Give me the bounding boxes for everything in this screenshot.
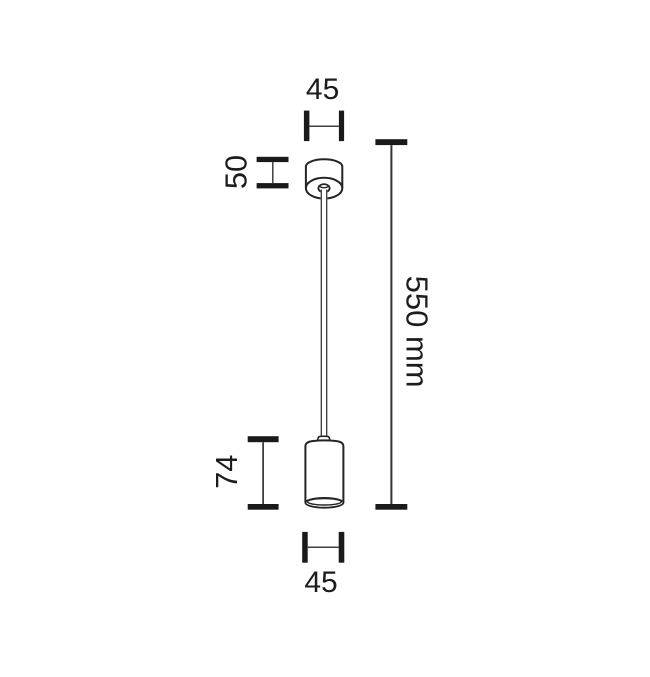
lamp cord collar (318, 436, 330, 442)
lamp bottom inner rim ellipse (308, 499, 342, 505)
dimension marker 50: bottom tick bar (257, 183, 289, 188)
dimension marker 45 top: right tick bar (339, 111, 344, 142)
lamp cylinder body (305, 440, 343, 502)
canopy: bottom ellipse (306, 178, 342, 199)
dimension marker 50: top tick bar (257, 157, 289, 162)
dimension marker 45 top: connecting line (309, 125, 339, 127)
canopy: left side (305, 167, 307, 189)
dimension text 74 (rotated, left) (209, 455, 244, 489)
canopy cord grip (318, 184, 329, 192)
dimension marker 74: top tick bar (248, 436, 279, 442)
dimension text 550 mm (rotated, right) (399, 276, 434, 388)
svg-text:74: 74 (209, 455, 244, 489)
dimension 550mm: bottom tick bar (375, 504, 407, 510)
canopy: top arc (306, 159, 342, 166)
canopy: right side (341, 167, 343, 189)
dimension marker 45 bottom: right tick bar (339, 532, 345, 563)
svg-text:50: 50 (219, 155, 254, 189)
dimension marker 45 top: left tick bar (304, 111, 310, 142)
dimension text 45 (bottom) (304, 566, 337, 599)
dimension text 45 (top) (306, 73, 339, 106)
svg-text:550 mm: 550 mm (399, 276, 434, 388)
dimension marker 45 bottom: connecting line (308, 546, 339, 548)
dimension 550mm: top tick bar (375, 139, 407, 145)
lamp bottom outer rim ellipse (305, 498, 343, 508)
dimension marker 74: bottom tick bar (248, 504, 279, 510)
dimension 550mm: extension line (390, 145, 392, 504)
svg-text:45: 45 (306, 73, 339, 106)
dimension text 50 (rotated, left) (219, 155, 254, 189)
dimension marker 74: connecting line (262, 442, 264, 504)
dimension marker 45 bottom: left tick bar (302, 532, 308, 563)
dimension marker 50: connecting line (272, 162, 274, 183)
suspension cord (321, 189, 328, 438)
svg-text:45: 45 (304, 566, 337, 599)
